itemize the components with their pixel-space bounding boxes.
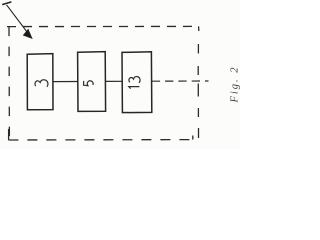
dashed output line [152, 80, 209, 82]
dashed enclosure left edge [8, 27, 10, 137]
wire block3-block5 [53, 81, 78, 83]
label 5 [84, 81, 94, 86]
arrow pointer to enclosure [7, 5, 32, 38]
numeral 1 tick mark [2, 2, 11, 5]
block 5 [78, 52, 106, 112]
label 3 [35, 80, 48, 87]
block 3 [27, 54, 53, 110]
dashed enclosure bottom-left corner [8, 129, 10, 140]
label 13 [129, 77, 140, 89]
dashed enclosure top edge [7, 25, 199, 27]
dashed enclosure bottom edge [8, 139, 193, 141]
svg-text:Fig. 2: Fig. 2 [230, 65, 241, 103]
dashed enclosure right edge [197, 44, 199, 138]
block 13 [122, 52, 152, 113]
wire block5-block13 [106, 80, 122, 82]
figure label Fig. 2 [230, 65, 241, 103]
dashed enclosure top-right corner hook [198, 26, 200, 31]
dashed enclosure bottom-right corner hook [192, 136, 194, 140]
